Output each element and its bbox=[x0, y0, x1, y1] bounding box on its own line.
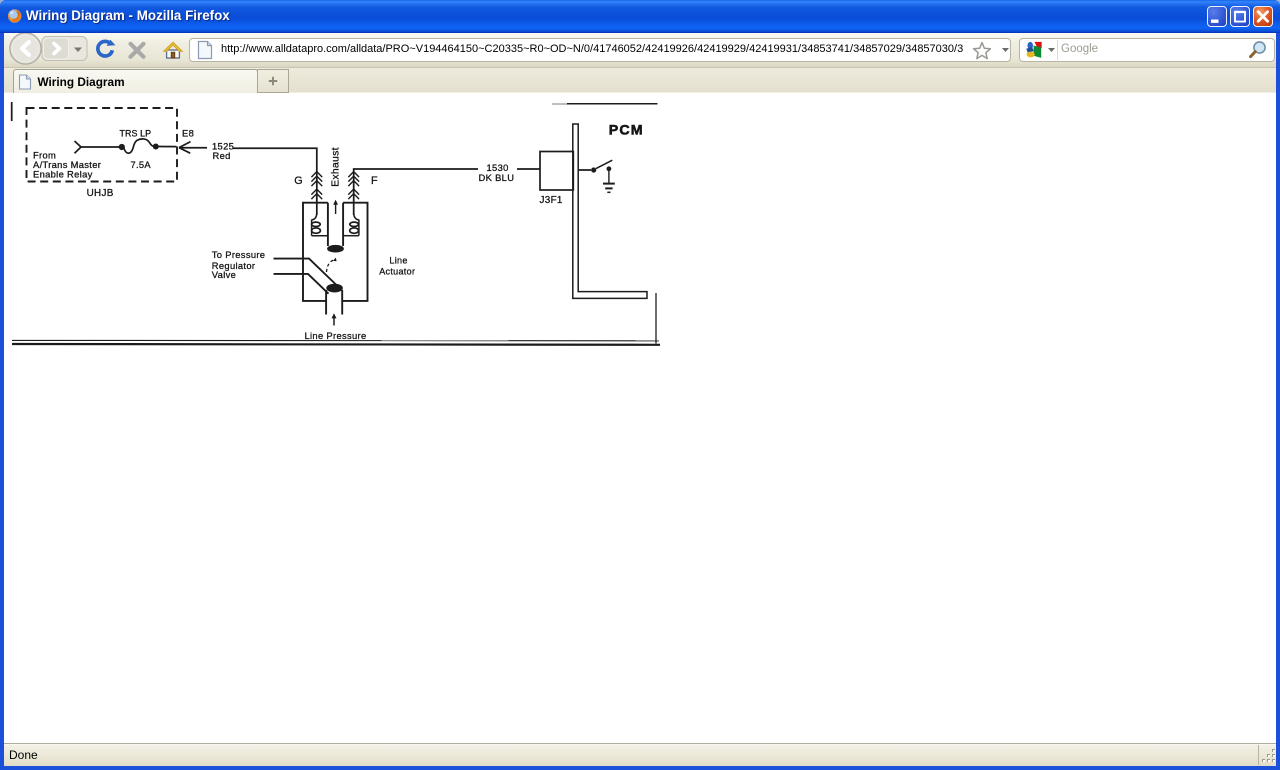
exhaust arrow bbox=[335, 204, 337, 215]
wire from relay with arrow bbox=[75, 141, 120, 153]
svg-text:Line Pressure: Line Pressure bbox=[305, 330, 367, 341]
plunger end ellipse bbox=[328, 245, 344, 252]
svg-text:E8: E8 bbox=[182, 128, 194, 139]
connector E8 arrow bbox=[179, 142, 207, 154]
star icon bbox=[971, 40, 995, 64]
svg-text:F: F bbox=[371, 175, 378, 187]
pressure regulator channel bbox=[274, 259, 339, 287]
svg-text:TRS LP: TRS LP bbox=[120, 128, 152, 138]
back circle bbox=[10, 33, 41, 64]
back/forward plaque bbox=[42, 37, 87, 61]
diagram bottom frame lines bbox=[12, 339, 659, 341]
svg-text:UHJB: UHJB bbox=[87, 188, 114, 199]
dropdown arrow bbox=[74, 48, 82, 53]
solenoid coil left bbox=[312, 213, 317, 220]
magnifier bbox=[1248, 40, 1268, 60]
actuator center slot walls bbox=[328, 203, 343, 246]
forward button bbox=[44, 38, 69, 59]
svg-text:J3F1: J3F1 bbox=[540, 195, 563, 206]
home icon bbox=[162, 39, 184, 61]
fuse F1 terminal dot left bbox=[119, 144, 125, 150]
diagram top frame line bbox=[552, 103, 568, 105]
line actuator body outline bbox=[303, 203, 368, 301]
terminal F chevrons bbox=[348, 172, 359, 200]
svg-text:Valve: Valve bbox=[212, 269, 236, 280]
url bar bbox=[189, 38, 1011, 62]
line pressure pipe walls bbox=[326, 290, 342, 315]
svg-text:Line: Line bbox=[389, 256, 407, 266]
ground symbol bbox=[603, 183, 615, 185]
terminal G chevrons bbox=[311, 172, 322, 200]
svg-text:Exhaust: Exhaust bbox=[331, 147, 342, 187]
search box bbox=[1019, 38, 1275, 62]
diagram right frame line bbox=[655, 293, 657, 344]
svg-text:DK BLU: DK BLU bbox=[479, 172, 515, 183]
svg-text:Actuator: Actuator bbox=[379, 267, 415, 277]
reload icon bbox=[94, 39, 116, 61]
solenoid coil right bbox=[354, 213, 359, 220]
stop icon bbox=[126, 39, 148, 61]
fuse terminal dot right bbox=[153, 144, 159, 150]
connector J3F1 box bbox=[540, 152, 573, 191]
switch drive inside PCM bbox=[578, 169, 591, 171]
dashed motion arrow bbox=[327, 260, 335, 272]
svg-text:G: G bbox=[294, 175, 303, 187]
wire 1530 from terminal F to PCM bbox=[354, 169, 478, 215]
valve ball ellipse bbox=[327, 284, 343, 292]
diagram left frame tick bbox=[11, 102, 13, 121]
svg-text:Red: Red bbox=[213, 150, 231, 161]
fuse TRS LP 7.5A element curve bbox=[124, 139, 155, 153]
svg-text:7.5A: 7.5A bbox=[131, 160, 152, 170]
fuse block UHJB dashed box bbox=[27, 108, 178, 182]
PCM bracket outline bbox=[573, 124, 647, 298]
svg-text:PCM: PCM bbox=[609, 122, 644, 138]
line pressure arrow bbox=[333, 317, 335, 326]
svg-text:Enable Relay: Enable Relay bbox=[33, 169, 93, 180]
svg-text:To Pressure: To Pressure bbox=[212, 249, 266, 260]
google logo bbox=[1025, 41, 1043, 59]
wire fuse to connector E8 bbox=[159, 146, 177, 148]
wire 1525 RED segment bbox=[233, 148, 317, 215]
